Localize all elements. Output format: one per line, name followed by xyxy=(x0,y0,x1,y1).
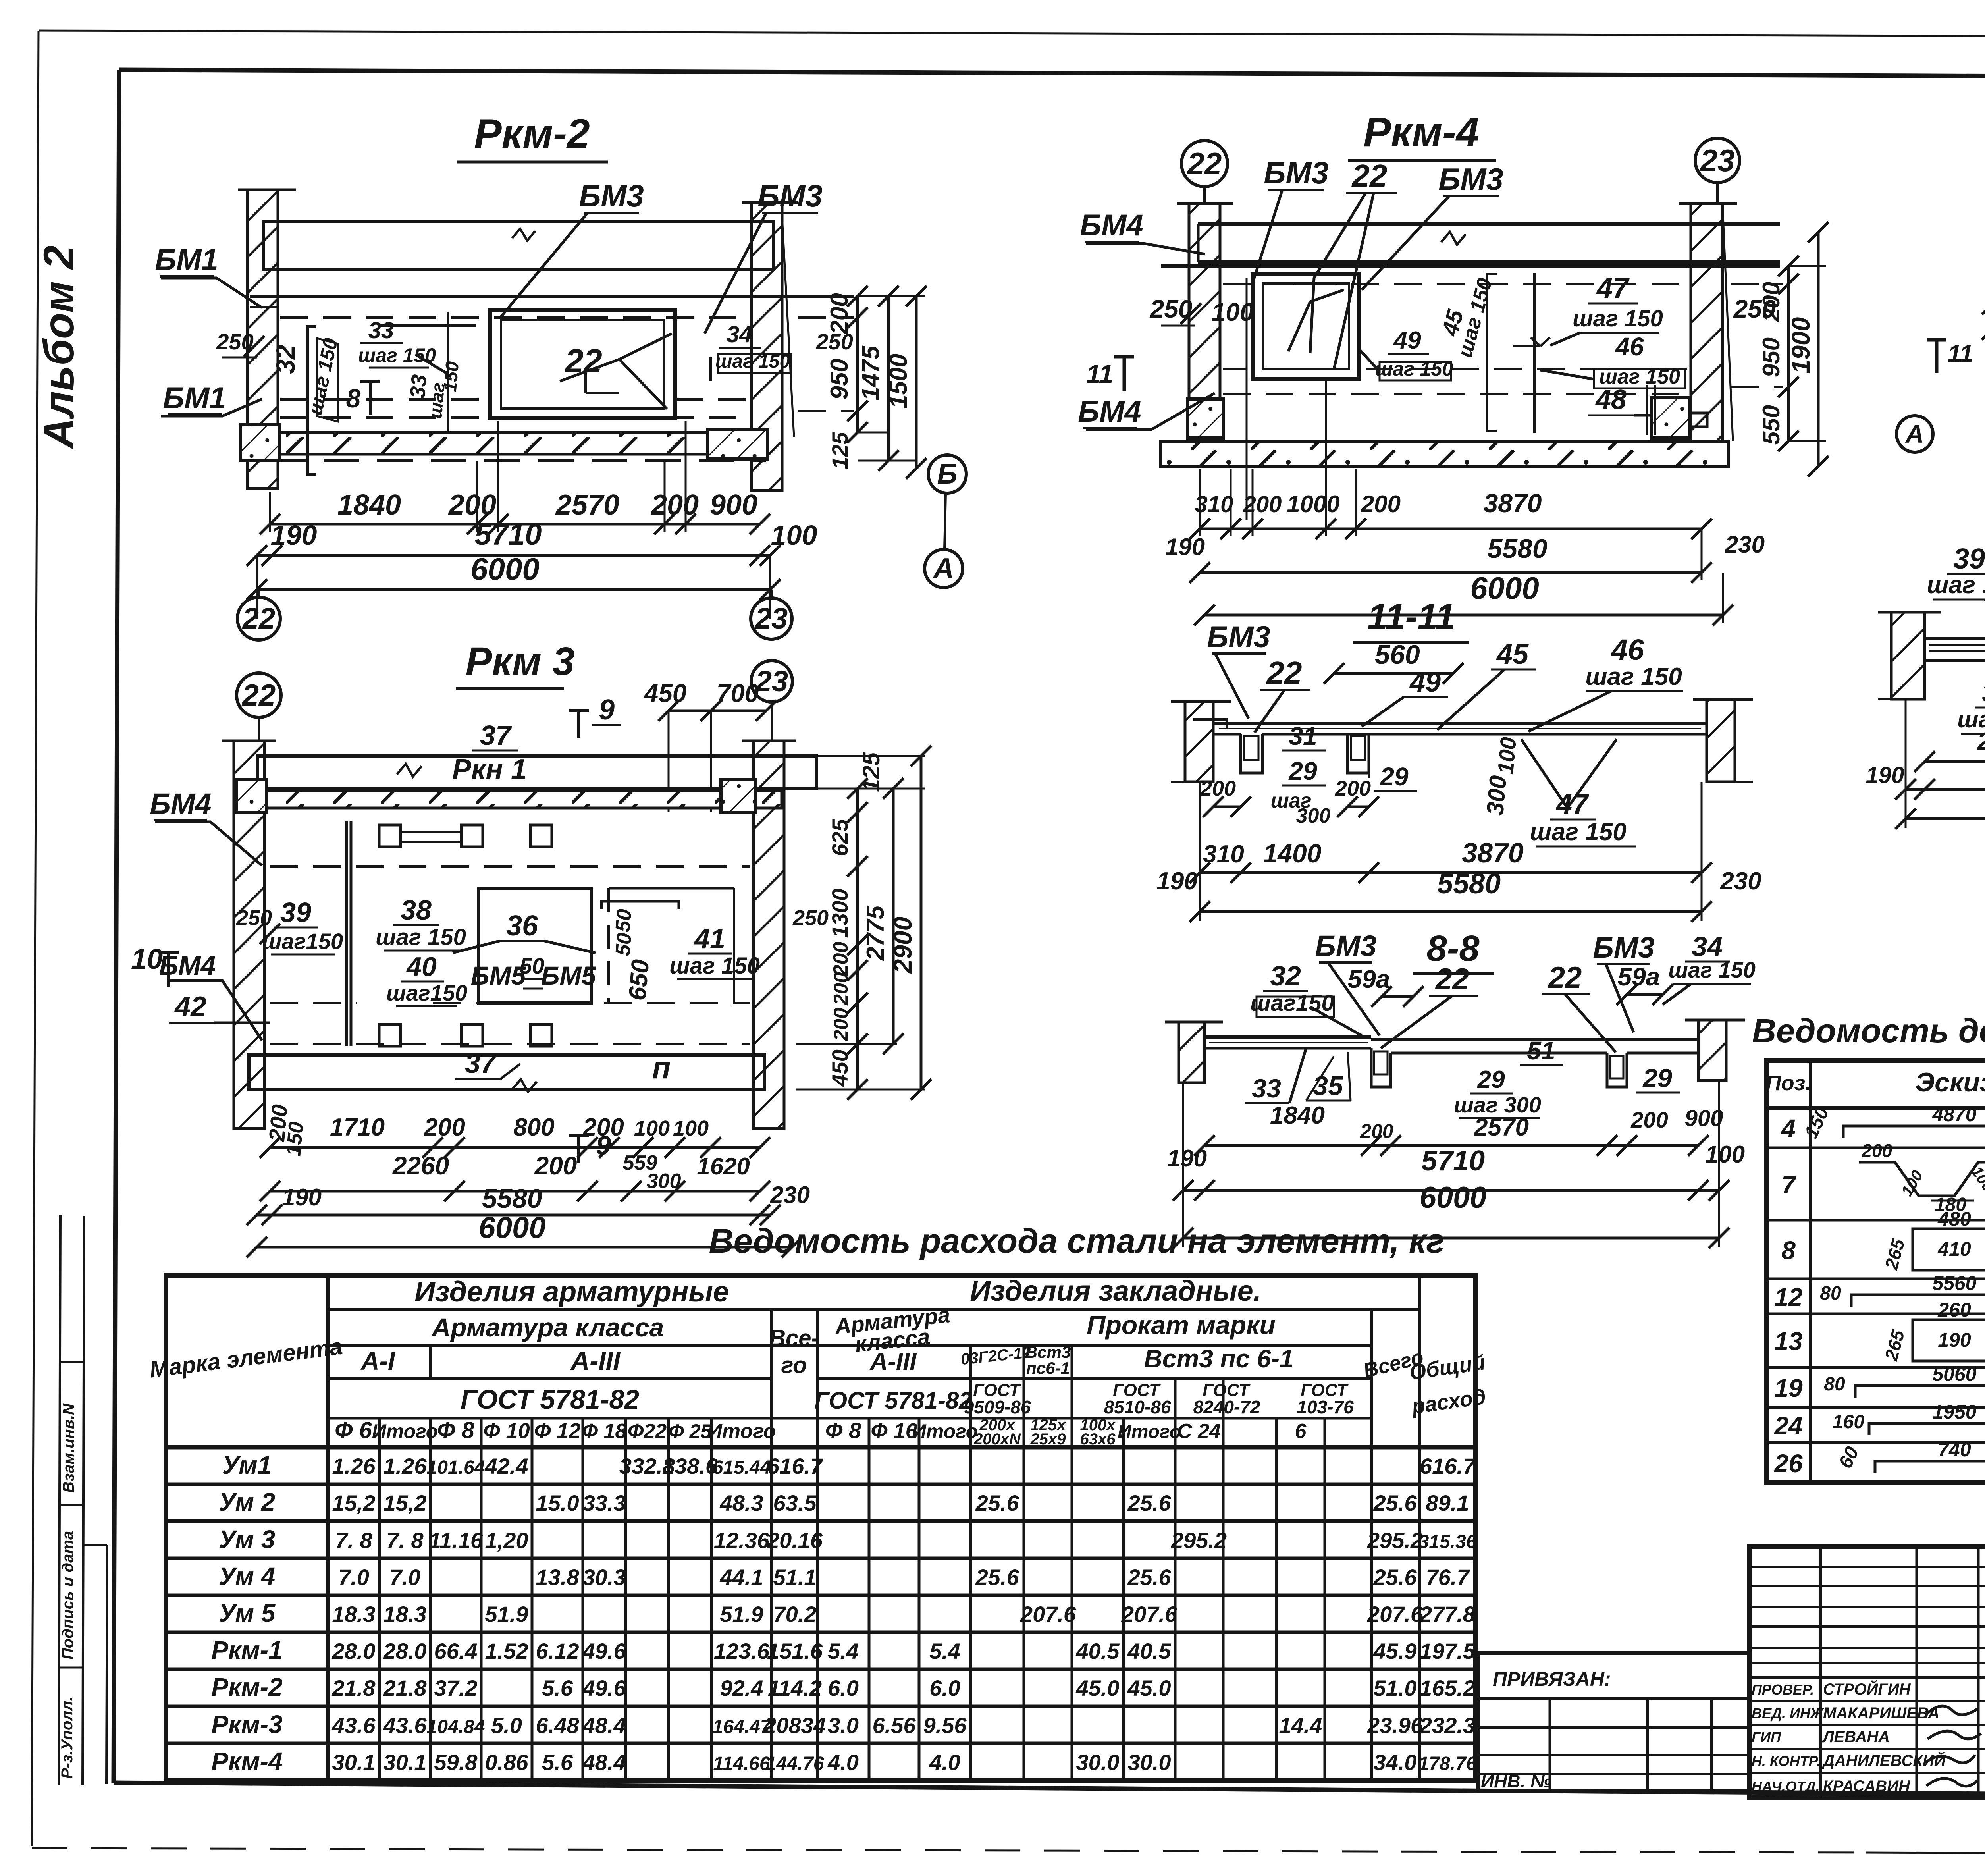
svg-text:21.8: 21.8 xyxy=(383,1675,427,1701)
svg-text:625: 625 xyxy=(827,819,852,856)
svg-text:650: 650 xyxy=(624,958,655,1002)
svg-text:178.76: 178.76 xyxy=(1418,1753,1477,1774)
svg-text:1950: 1950 xyxy=(1932,1401,1976,1423)
svg-text:151.6: 151.6 xyxy=(767,1639,823,1664)
svg-text:28.0: 28.0 xyxy=(383,1639,427,1664)
svg-text:пс6-1: пс6-1 xyxy=(1026,1359,1070,1377)
svg-text:200: 200 xyxy=(829,942,852,977)
svg-text:740: 740 xyxy=(1938,1438,1971,1461)
svg-text:31: 31 xyxy=(1289,722,1317,750)
svg-text:15,2: 15,2 xyxy=(384,1490,427,1515)
svg-text:шаг150: шаг150 xyxy=(262,929,343,954)
svg-text:2260: 2260 xyxy=(392,1151,449,1180)
svg-text:190: 190 xyxy=(1866,762,1904,788)
svg-text:1500: 1500 xyxy=(885,354,912,409)
svg-text:3870: 3870 xyxy=(1484,488,1542,518)
svg-text:14.4: 14.4 xyxy=(1279,1713,1322,1738)
svg-text:25х9: 25х9 xyxy=(1030,1431,1066,1448)
svg-text:шаг 150: шаг 150 xyxy=(376,924,466,950)
svg-text:ГИП: ГИП xyxy=(1752,1729,1781,1745)
svg-text:100: 100 xyxy=(673,1116,709,1140)
svg-text:ВЕД. ИНЖ.: ВЕД. ИНЖ. xyxy=(1752,1705,1827,1722)
svg-text:277.8: 277.8 xyxy=(1419,1602,1476,1627)
svg-text:450: 450 xyxy=(827,1049,852,1087)
svg-text:6.48: 6.48 xyxy=(536,1713,580,1738)
svg-text:7. 8: 7. 8 xyxy=(335,1528,372,1553)
svg-text:37: 37 xyxy=(465,1048,497,1079)
svg-text:125: 125 xyxy=(827,432,852,469)
svg-text:32: 32 xyxy=(271,345,300,374)
svg-text:БМ4: БМ4 xyxy=(159,951,216,981)
svg-text:ЛЕВАНА: ЛЕВАНА xyxy=(1822,1728,1890,1746)
svg-text:89.1: 89.1 xyxy=(1426,1490,1469,1515)
svg-text:260: 260 xyxy=(1937,1299,1971,1321)
svg-text:7.0: 7.0 xyxy=(389,1565,420,1590)
svg-text:11.16: 11.16 xyxy=(429,1528,483,1553)
svg-text:190: 190 xyxy=(1156,868,1197,895)
svg-text:11-11: 11-11 xyxy=(1367,597,1455,637)
svg-text:шаг 150: шаг 150 xyxy=(1573,306,1663,332)
svg-text:34: 34 xyxy=(727,322,752,347)
svg-text:1.52: 1.52 xyxy=(485,1639,528,1664)
svg-text:51.9: 51.9 xyxy=(720,1602,763,1627)
svg-text:Б: Б xyxy=(937,458,958,490)
svg-text:295.2: 295.2 xyxy=(1367,1528,1423,1553)
section 9-9 xyxy=(1896,141,1985,482)
svg-text:22: 22 xyxy=(1435,962,1469,996)
svg-text:го: го xyxy=(781,1352,807,1378)
svg-text:37: 37 xyxy=(480,720,512,751)
svg-text:А-III: А-III xyxy=(570,1346,621,1375)
svg-text:Ф 12: Ф 12 xyxy=(534,1419,580,1443)
svg-text:5580: 5580 xyxy=(482,1184,542,1214)
svg-text:Итого: Итого xyxy=(707,1420,776,1443)
svg-text:480: 480 xyxy=(1937,1208,1971,1230)
svg-text:11: 11 xyxy=(1948,340,1973,368)
svg-text:300: 300 xyxy=(1482,774,1511,816)
svg-text:6.12: 6.12 xyxy=(536,1639,579,1664)
svg-text:250: 250 xyxy=(792,906,829,930)
svg-text:5580: 5580 xyxy=(1437,868,1501,900)
svg-text:49: 49 xyxy=(1409,667,1441,698)
svg-text:5580: 5580 xyxy=(1487,534,1547,564)
svg-text:Ркм-2: Ркм-2 xyxy=(474,111,590,157)
svg-text:48.3: 48.3 xyxy=(720,1490,763,1515)
section 11-11 xyxy=(1156,597,1761,922)
svg-text:49.6: 49.6 xyxy=(582,1675,626,1701)
svg-text:БМ5: БМ5 xyxy=(471,961,526,990)
svg-text:80: 80 xyxy=(1824,1374,1845,1395)
РкМ-3 right vertical dims xyxy=(796,746,931,1100)
svg-text:6000: 6000 xyxy=(1419,1181,1486,1215)
svg-text:Ф 10: Ф 10 xyxy=(483,1419,530,1443)
svg-text:207.6: 207.6 xyxy=(1020,1602,1076,1627)
svg-text:25.6: 25.6 xyxy=(1373,1565,1417,1590)
svg-text:45: 45 xyxy=(1496,638,1529,670)
svg-text:48.4: 48.4 xyxy=(582,1750,626,1775)
svg-text:7. 8: 7. 8 xyxy=(386,1528,424,1553)
svg-text:150: 150 xyxy=(282,1121,308,1157)
svg-text:Итого: Итого xyxy=(372,1420,438,1442)
svg-text:МАКАРИШЕВА: МАКАРИШЕВА xyxy=(1823,1704,1939,1722)
svg-text:ГОСТ 5781-82: ГОСТ 5781-82 xyxy=(814,1387,972,1414)
svg-text:5060: 5060 xyxy=(1932,1363,1976,1385)
svg-text:21.8: 21.8 xyxy=(332,1675,376,1701)
svg-text:48: 48 xyxy=(1595,384,1627,415)
svg-text:1.26: 1.26 xyxy=(384,1454,427,1479)
svg-text:5560: 5560 xyxy=(1932,1272,1976,1294)
section 8-8 xyxy=(1165,928,1756,1248)
svg-text:46: 46 xyxy=(1615,332,1644,361)
svg-text:70.2: 70.2 xyxy=(773,1602,817,1627)
svg-text:БМ4: БМ4 xyxy=(150,787,211,820)
svg-text:Эскиз: Эскиз xyxy=(1915,1067,1985,1097)
svg-text:6000: 6000 xyxy=(470,551,540,586)
svg-text:144.76: 144.76 xyxy=(766,1753,824,1774)
svg-text:232.3: 232.3 xyxy=(1419,1713,1475,1738)
svg-text:40.5: 40.5 xyxy=(1127,1639,1172,1664)
svg-text:Ум 3: Ум 3 xyxy=(219,1525,275,1554)
svg-text:66.4: 66.4 xyxy=(434,1639,478,1664)
svg-text:41: 41 xyxy=(694,923,725,954)
svg-text:п: п xyxy=(652,1051,671,1085)
svg-text:33: 33 xyxy=(368,318,394,343)
svg-text:1620: 1620 xyxy=(697,1153,750,1180)
svg-text:39: 39 xyxy=(1953,543,1985,575)
svg-text:Ркм-2: Ркм-2 xyxy=(211,1673,282,1701)
svg-text:190: 190 xyxy=(1165,534,1205,560)
grid circles 22/23 for РкМ-2 xyxy=(237,590,792,640)
svg-text:6000: 6000 xyxy=(478,1211,545,1245)
svg-text:Взам.инв.N: Взам.инв.N xyxy=(60,1403,77,1493)
svg-text:33.3: 33.3 xyxy=(583,1490,626,1515)
svg-text:20.16: 20.16 xyxy=(767,1528,823,1553)
svg-text:164.47: 164.47 xyxy=(713,1716,772,1737)
svg-text:80: 80 xyxy=(1820,1283,1841,1304)
svg-text:25.6: 25.6 xyxy=(975,1565,1019,1590)
svg-text:616.7: 616.7 xyxy=(767,1454,824,1479)
svg-text:шаг 150: шаг 150 xyxy=(1530,818,1626,846)
svg-text:23: 23 xyxy=(1700,143,1735,178)
svg-text:18.3: 18.3 xyxy=(384,1602,427,1627)
svg-text:50: 50 xyxy=(611,908,636,933)
svg-text:30.1: 30.1 xyxy=(332,1750,376,1775)
svg-text:22: 22 xyxy=(1548,961,1582,995)
svg-text:Изделия закладные.: Изделия закладные. xyxy=(970,1275,1261,1307)
svg-text:Изделия арматурные: Изделия арматурные xyxy=(414,1276,729,1308)
detail table 1 (Поз 4..26) xyxy=(1752,1012,1985,1483)
svg-text:44.1: 44.1 xyxy=(720,1565,763,1590)
svg-text:29: 29 xyxy=(1288,757,1317,785)
svg-text:25.6: 25.6 xyxy=(975,1490,1019,1515)
svg-text:Ф 25: Ф 25 xyxy=(669,1420,712,1442)
svg-text:295.2: 295.2 xyxy=(1171,1528,1227,1553)
svg-text:13.8: 13.8 xyxy=(536,1565,580,1590)
svg-text:Ф 6: Ф 6 xyxy=(335,1417,372,1443)
svg-text:22: 22 xyxy=(1187,146,1222,181)
svg-text:4.0: 4.0 xyxy=(929,1750,960,1775)
svg-text:БМ3: БМ3 xyxy=(1207,620,1270,654)
svg-text:5.4: 5.4 xyxy=(929,1639,960,1664)
svg-text:1710: 1710 xyxy=(330,1114,385,1141)
svg-text:76.7: 76.7 xyxy=(1426,1565,1470,1590)
svg-text:38: 38 xyxy=(1982,678,1985,708)
svg-text:ГОСТ 5781-82: ГОСТ 5781-82 xyxy=(461,1384,639,1415)
svg-text:4870: 4870 xyxy=(1932,1103,1976,1126)
svg-text:49: 49 xyxy=(1393,327,1421,354)
svg-text:200: 200 xyxy=(830,1008,852,1041)
svg-text:30.0: 30.0 xyxy=(1128,1750,1171,1775)
svg-text:шаг 150: шаг 150 xyxy=(1927,571,1985,599)
svg-text:51.9: 51.9 xyxy=(485,1602,528,1627)
svg-text:4: 4 xyxy=(1781,1114,1796,1143)
svg-text:230: 230 xyxy=(1720,868,1761,895)
svg-text:63.5: 63.5 xyxy=(773,1490,817,1515)
svg-text:40.5: 40.5 xyxy=(1076,1639,1120,1664)
svg-text:200: 200 xyxy=(1243,492,1282,517)
svg-text:616.7: 616.7 xyxy=(1420,1454,1476,1479)
svg-text:23.96: 23.96 xyxy=(1367,1713,1423,1738)
svg-text:38: 38 xyxy=(401,895,432,925)
svg-text:43.6: 43.6 xyxy=(383,1713,427,1738)
svg-text:26: 26 xyxy=(1774,1449,1803,1478)
svg-text:БМ3: БМ3 xyxy=(1315,929,1376,962)
svg-text:А-I: А-I xyxy=(360,1347,395,1375)
svg-text:9: 9 xyxy=(599,694,615,726)
svg-text:5710: 5710 xyxy=(1421,1145,1485,1177)
svg-text:шаг 150: шаг 150 xyxy=(1668,957,1756,982)
svg-text:1300: 1300 xyxy=(827,889,852,938)
svg-text:200: 200 xyxy=(1335,777,1371,800)
svg-text:Итого: Итого xyxy=(912,1420,978,1442)
svg-text:410: 410 xyxy=(1937,1238,1971,1260)
svg-text:200: 200 xyxy=(1862,1140,1892,1161)
svg-text:6: 6 xyxy=(1295,1420,1307,1443)
svg-text:БМ4: БМ4 xyxy=(1080,208,1143,242)
svg-text:5.6: 5.6 xyxy=(542,1750,573,1775)
svg-text:13: 13 xyxy=(1774,1327,1802,1355)
svg-text:ИНВ. №: ИНВ. № xyxy=(1481,1771,1551,1791)
svg-text:18.3: 18.3 xyxy=(332,1602,376,1627)
svg-text:950: 950 xyxy=(1758,337,1785,377)
svg-text:200хN: 200хN xyxy=(973,1431,1021,1448)
svg-text:15,2: 15,2 xyxy=(332,1490,376,1515)
svg-text:Ф 8: Ф 8 xyxy=(825,1418,861,1443)
svg-text:200: 200 xyxy=(424,1114,465,1141)
svg-text:8: 8 xyxy=(346,384,361,413)
svg-text:1475: 1475 xyxy=(857,345,885,401)
svg-text:190: 190 xyxy=(1938,1329,1971,1351)
svg-text:А: А xyxy=(1905,420,1924,448)
svg-text:950: 950 xyxy=(826,359,853,399)
svg-text:103-76: 103-76 xyxy=(1297,1397,1354,1417)
svg-text:900: 900 xyxy=(710,489,757,521)
svg-text:5710: 5710 xyxy=(474,518,542,551)
svg-text:160: 160 xyxy=(1833,1411,1864,1433)
svg-text:47: 47 xyxy=(1596,272,1630,304)
svg-text:23: 23 xyxy=(755,665,788,698)
svg-text:Ум 4: Ум 4 xyxy=(219,1562,275,1591)
svg-text:100: 100 xyxy=(634,1116,670,1140)
svg-text:КРАСАВИН: КРАСАВИН xyxy=(1823,1778,1910,1795)
title block xyxy=(1749,1547,1985,1798)
svg-text:Альбом 2: Альбом 2 xyxy=(35,245,83,450)
section letter circles Б/А xyxy=(925,455,966,588)
svg-text:БМ3: БМ3 xyxy=(579,178,644,213)
svg-text:32: 32 xyxy=(1270,960,1301,991)
svg-text:Ведомость деталей.: Ведомость деталей. xyxy=(1752,1012,1985,1049)
drawing РкМ 3 plan xyxy=(131,639,829,1257)
svg-text:200: 200 xyxy=(1200,777,1236,800)
svg-text:28.0: 28.0 xyxy=(332,1639,376,1664)
svg-text:700: 700 xyxy=(717,679,759,708)
svg-text:114.66: 114.66 xyxy=(713,1753,770,1774)
svg-text:2570: 2570 xyxy=(555,489,619,521)
svg-text:1.26: 1.26 xyxy=(332,1454,376,1479)
drawing РкМ-4 plan xyxy=(1078,109,1783,625)
svg-text:315.36: 315.36 xyxy=(1418,1531,1477,1552)
svg-text:1840: 1840 xyxy=(1270,1102,1325,1129)
svg-text:1,20: 1,20 xyxy=(485,1528,528,1553)
svg-text:22: 22 xyxy=(1266,655,1302,690)
svg-text:42.4: 42.4 xyxy=(485,1454,528,1479)
svg-text:34.0: 34.0 xyxy=(1374,1750,1417,1775)
svg-text:25.6: 25.6 xyxy=(1127,1490,1172,1515)
svg-text:50: 50 xyxy=(611,932,636,957)
svg-text:2570: 2570 xyxy=(1474,1114,1529,1141)
svg-text:207.6: 207.6 xyxy=(1367,1602,1423,1627)
svg-text:15.0: 15.0 xyxy=(536,1490,579,1515)
svg-text:9: 9 xyxy=(596,1130,611,1161)
привязан block xyxy=(1478,1653,1749,1791)
svg-text:10: 10 xyxy=(131,943,163,975)
svg-text:197.5: 197.5 xyxy=(1420,1639,1476,1664)
svg-text:30.3: 30.3 xyxy=(583,1565,626,1590)
svg-text:200: 200 xyxy=(830,972,852,1006)
svg-text:Подпись и дата: Подпись и дата xyxy=(59,1531,77,1660)
svg-text:51: 51 xyxy=(1527,1036,1555,1065)
svg-text:190: 190 xyxy=(1167,1145,1207,1172)
svg-text:Все-: Все- xyxy=(769,1325,819,1351)
svg-text:22: 22 xyxy=(242,602,275,635)
svg-text:300: 300 xyxy=(1296,804,1331,827)
svg-text:550: 550 xyxy=(1758,405,1785,445)
detail table 2 (Поз 32..49) xyxy=(0,0,0,0)
svg-text:46: 46 xyxy=(1611,633,1644,666)
svg-text:45.0: 45.0 xyxy=(1076,1675,1120,1701)
svg-text:51.1: 51.1 xyxy=(773,1565,817,1590)
svg-text:Ф 18: Ф 18 xyxy=(582,1420,627,1443)
svg-text:39: 39 xyxy=(280,897,311,928)
svg-text:207.6: 207.6 xyxy=(1121,1602,1178,1627)
svg-text:45.9: 45.9 xyxy=(1373,1639,1417,1664)
svg-text:7.0: 7.0 xyxy=(338,1565,369,1590)
svg-text:Ркм-4: Ркм-4 xyxy=(1363,109,1479,155)
svg-text:138.6: 138.6 xyxy=(662,1454,718,1479)
svg-text:шаг 150: шаг 150 xyxy=(669,953,760,979)
svg-text:30.0: 30.0 xyxy=(1076,1750,1120,1775)
svg-text:25.6: 25.6 xyxy=(1127,1565,1172,1590)
svg-text:2775: 2775 xyxy=(862,905,889,961)
svg-text:8240-72: 8240-72 xyxy=(1193,1397,1260,1417)
svg-text:1400: 1400 xyxy=(1263,839,1322,868)
svg-text:Ркн 1: Ркн 1 xyxy=(452,754,527,785)
РкМ-4 right vertical dims xyxy=(1758,222,1829,476)
svg-text:200: 200 xyxy=(826,293,853,334)
svg-text:59.8: 59.8 xyxy=(434,1750,478,1775)
svg-text:12: 12 xyxy=(1774,1283,1802,1311)
РкМ-2 right vertical dims xyxy=(826,286,927,479)
svg-text:200: 200 xyxy=(650,489,699,521)
svg-text:37.2: 37.2 xyxy=(434,1675,478,1701)
svg-text:200: 200 xyxy=(1361,491,1401,517)
svg-text:Вст3 пс 6-1: Вст3 пс 6-1 xyxy=(1144,1344,1293,1373)
svg-text:3.0: 3.0 xyxy=(828,1713,859,1738)
svg-text:Итого: Итого xyxy=(1118,1421,1181,1442)
svg-text:36: 36 xyxy=(506,910,538,942)
svg-text:Ркм 3: Ркм 3 xyxy=(466,639,575,684)
svg-text:БМ5: БМ5 xyxy=(541,961,597,990)
svg-text:0.86: 0.86 xyxy=(485,1750,529,1775)
svg-text:101.64: 101.64 xyxy=(427,1457,485,1478)
svg-text:12.36: 12.36 xyxy=(714,1528,770,1553)
svg-text:Ф22: Ф22 xyxy=(628,1420,667,1443)
svg-text:560: 560 xyxy=(1375,640,1420,670)
svg-text:4.0: 4.0 xyxy=(827,1750,859,1775)
svg-text:200: 200 xyxy=(534,1151,577,1180)
svg-text:5.0: 5.0 xyxy=(491,1713,522,1738)
svg-text:200: 200 xyxy=(1630,1107,1668,1132)
svg-text:165.2: 165.2 xyxy=(1420,1675,1475,1701)
svg-text:шаг 150: шаг 150 xyxy=(1585,663,1682,690)
svg-text:43.6: 43.6 xyxy=(332,1713,376,1738)
svg-text:Н. КОНТР.: Н. КОНТР. xyxy=(1752,1753,1820,1769)
svg-text:200: 200 xyxy=(448,489,496,521)
svg-text:190: 190 xyxy=(282,1184,322,1211)
svg-text:С 24: С 24 xyxy=(1177,1420,1221,1443)
svg-text:8510-86: 8510-86 xyxy=(1104,1397,1171,1417)
svg-text:Ф 8: Ф 8 xyxy=(437,1417,474,1443)
svg-text:48.4: 48.4 xyxy=(582,1713,626,1738)
svg-text:1900: 1900 xyxy=(1786,317,1815,374)
svg-text:900: 900 xyxy=(1685,1105,1723,1131)
svg-text:200: 200 xyxy=(1758,282,1785,322)
svg-text:100: 100 xyxy=(1705,1141,1745,1168)
svg-text:250: 250 xyxy=(236,906,272,930)
svg-text:92.4: 92.4 xyxy=(720,1675,763,1701)
svg-text:40: 40 xyxy=(406,952,437,982)
svg-text:114.2: 114.2 xyxy=(768,1675,822,1701)
svg-text:БМ3: БМ3 xyxy=(1593,931,1654,964)
svg-text:6.0: 6.0 xyxy=(929,1675,960,1701)
svg-text:шаг150: шаг150 xyxy=(386,980,467,1005)
svg-text:3870: 3870 xyxy=(1462,837,1524,868)
svg-text:6.0: 6.0 xyxy=(828,1675,859,1701)
svg-text:47: 47 xyxy=(1555,789,1589,820)
svg-text:33: 33 xyxy=(1252,1074,1281,1103)
svg-text:Ркм-3: Ркм-3 xyxy=(211,1710,282,1739)
svg-text:450: 450 xyxy=(644,679,687,708)
svg-text:22: 22 xyxy=(1351,158,1388,193)
svg-text:63х6: 63х6 xyxy=(1080,1431,1116,1448)
svg-text:8: 8 xyxy=(1781,1236,1796,1265)
svg-text:190: 190 xyxy=(271,520,317,551)
table header texts xyxy=(148,1275,1487,1448)
svg-text:2260: 2260 xyxy=(1977,728,1985,755)
svg-text:5.6: 5.6 xyxy=(542,1675,573,1701)
svg-text:150: 150 xyxy=(439,361,463,393)
svg-text:35: 35 xyxy=(1313,1071,1343,1101)
